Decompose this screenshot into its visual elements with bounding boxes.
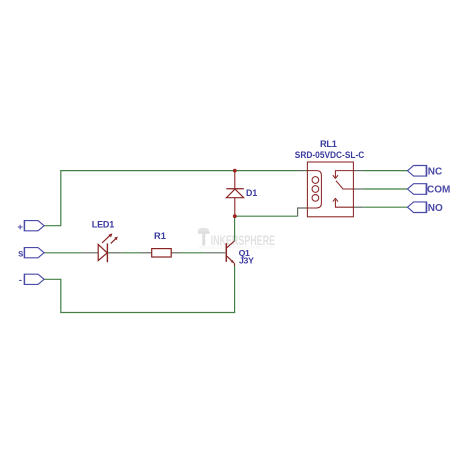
svg-text:LED1: LED1 xyxy=(92,219,114,229)
svg-text:+: + xyxy=(17,222,23,233)
svg-text:NEW YORK CITY’S FAVORITE ELECT: NEW YORK CITY’S FAVORITE ELECTRONICS STO… xyxy=(199,246,276,250)
svg-text:NO: NO xyxy=(428,203,443,214)
svg-text:SRD-05VDC-SL-C: SRD-05VDC-SL-C xyxy=(295,150,365,160)
svg-text:-: - xyxy=(19,275,22,286)
svg-text:NC: NC xyxy=(428,166,442,177)
svg-text:s: s xyxy=(18,249,24,260)
svg-text:RL1: RL1 xyxy=(320,139,337,149)
svg-text:J3Y: J3Y xyxy=(239,255,254,265)
svg-text:COM: COM xyxy=(427,185,450,196)
svg-text:R1: R1 xyxy=(154,231,166,241)
svg-text:D1: D1 xyxy=(246,188,257,198)
